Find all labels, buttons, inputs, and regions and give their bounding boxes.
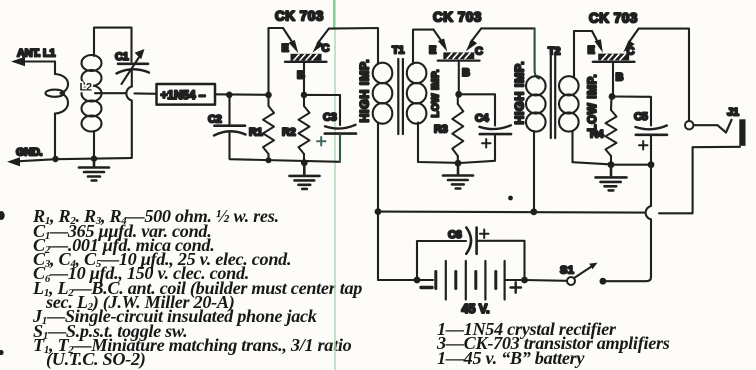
coil L2 (top lead) bbox=[94, 28, 132, 159]
svg-text:C6: C6 bbox=[448, 229, 462, 241]
node: switch fixed contact bbox=[600, 278, 607, 285]
wire base Q2 to C4 bbox=[459, 94, 495, 125]
resistor R1 bbox=[249, 95, 274, 160]
wire T1 primary bottom to B- rail bbox=[377, 123, 379, 212]
capacitor C3 bbox=[317, 95, 356, 162]
svg-text:LOW IMP.: LOW IMP. bbox=[587, 74, 599, 132]
T2 primary winding bbox=[526, 76, 546, 95]
svg-text:L2: L2 bbox=[80, 82, 92, 94]
wire antenna down to L1 bbox=[54, 62, 56, 75]
capacitor C6 bbox=[417, 228, 525, 281]
wire T1 secondary top to Q2 emitter bbox=[413, 30, 434, 64]
switch S1 bbox=[560, 263, 598, 285]
wire stage3 ground to C5 bottom bbox=[611, 164, 651, 166]
node: base Q2 junction bbox=[455, 91, 462, 98]
wire T2 primary bottom to B- rail bbox=[533, 131, 535, 212]
ground (tank) bbox=[79, 159, 109, 181]
svg-text:HIGH IMP.: HIGH IMP. bbox=[358, 59, 372, 123]
wire rectifier output bbox=[215, 93, 269, 96]
ground (stage 3) bbox=[596, 165, 627, 191]
svg-text:E: E bbox=[588, 45, 595, 57]
wire T1 secondary bottom to stage2 ground bbox=[418, 123, 456, 163]
node: L1/rail junction bbox=[52, 156, 58, 162]
node: R2 bottom ground junction bbox=[301, 159, 308, 166]
wire L2 tap to rectifier bbox=[95, 92, 157, 95]
svg-text:B: B bbox=[616, 72, 624, 84]
node: R1 bottom bbox=[266, 157, 272, 163]
svg-text:S1: S1 bbox=[560, 265, 574, 277]
svg-text:HIGH IMP.: HIGH IMP. bbox=[513, 61, 527, 125]
ground (stage 2) bbox=[443, 163, 473, 188]
antenna terminal ANT. L1 bbox=[11, 48, 55, 67]
node: battery - junction bbox=[414, 277, 421, 284]
svg-text:CK 703: CK 703 bbox=[433, 10, 482, 25]
svg-text:LOW IMP.: LOW IMP. bbox=[431, 69, 442, 117]
node: base Q3 junction bbox=[609, 93, 616, 100]
cell plates: short bbox=[436, 272, 496, 289]
T1 core bbox=[397, 59, 399, 134]
resistor R2 bbox=[282, 95, 310, 163]
node: L2 ground junction bbox=[91, 155, 97, 161]
capacitor C4 bbox=[460, 113, 511, 164]
svg-text:C1: C1 bbox=[115, 51, 129, 63]
transistor Q3 CK703 bbox=[588, 11, 639, 96]
scan speck left edge bbox=[0, 211, 5, 220]
scan speck left lower bbox=[0, 350, 4, 355]
node: C2 junction bbox=[226, 92, 233, 99]
svg-text:+1N54 –: +1N54 – bbox=[161, 88, 206, 102]
jack spring contact bbox=[694, 120, 732, 133]
wire emitter Q1 riser bbox=[269, 28, 284, 95]
transformer T2 bbox=[513, 46, 600, 139]
svg-text:C4: C4 bbox=[475, 113, 490, 125]
parts list text block left bbox=[33, 207, 279, 225]
svg-text:CK 703: CK 703 bbox=[589, 11, 638, 26]
wire B- rail bbox=[378, 212, 645, 213]
T2 secondary winding bbox=[559, 76, 579, 95]
parts list text block right bbox=[437, 320, 616, 338]
resistor R3 bbox=[434, 94, 463, 163]
svg-text:R1: R1 bbox=[249, 127, 263, 139]
wire jack sleeve return bbox=[659, 147, 740, 214]
T1 primary winding bbox=[373, 63, 393, 84]
node: stage3 ground junction bbox=[608, 161, 615, 168]
wire rail down to battery - bbox=[378, 212, 417, 280]
green scan line bbox=[334, 0, 336, 370]
wire Q2 collector to T2 primary (dark green tinted) bbox=[481, 27, 534, 29]
svg-text:45 V.: 45 V. bbox=[462, 302, 490, 316]
variable capacitor C1 bbox=[115, 28, 149, 87]
svg-text:E: E bbox=[429, 45, 436, 57]
wire Q1 collector to T1 primary bbox=[329, 28, 378, 64]
wire stage1 ground rail bbox=[230, 159, 341, 162]
wire battery+ to switch bbox=[525, 279, 568, 282]
transformer T1 bbox=[358, 45, 442, 135]
wire tank bottom rail bbox=[56, 158, 132, 159]
node: C5 bottom junction bbox=[648, 161, 655, 168]
svg-text:E: E bbox=[282, 43, 289, 55]
svg-text:C3: C3 bbox=[323, 112, 337, 124]
coil L1 bbox=[46, 74, 69, 159]
svg-text:R4: R4 bbox=[590, 129, 605, 141]
scan speck near T2 bottom bbox=[508, 196, 513, 201]
svg-text:R2: R2 bbox=[282, 127, 296, 139]
plus label bbox=[511, 282, 522, 292]
battery 45V bbox=[417, 261, 525, 316]
svg-text:C5: C5 bbox=[634, 111, 648, 123]
wire battery+ riser with hop over rail bbox=[603, 165, 651, 282]
phone jack J1 bbox=[659, 107, 746, 214]
svg-text:B: B bbox=[462, 67, 470, 79]
transistor Q1 CK703 bbox=[275, 9, 330, 95]
crystal rectifier 1N54 bbox=[157, 84, 216, 105]
svg-text:C2: C2 bbox=[208, 114, 222, 126]
svg-text:GND.: GND. bbox=[16, 147, 43, 159]
node: T1 bottom rail junction bbox=[375, 208, 382, 215]
wire base line to C3 bbox=[304, 94, 340, 96]
node: stage2 ground junction bbox=[455, 160, 462, 167]
jack sleeve bar bbox=[739, 119, 745, 146]
T2 core bbox=[550, 56, 552, 139]
capacitor C2 bbox=[208, 95, 246, 159]
node: base Q1 junction bbox=[301, 92, 308, 99]
resistor R4 bbox=[590, 97, 617, 165]
ground terminal GND. bbox=[7, 147, 56, 167]
transistor Q2 CK703 bbox=[429, 10, 483, 95]
node: R1 top / emitter junction bbox=[265, 92, 272, 99]
svg-text:J1: J1 bbox=[727, 107, 739, 119]
wire T2 secondary bottom to stage3 ground bbox=[573, 131, 610, 164]
wire base Q3 to C5 bbox=[612, 97, 651, 126]
T1 secondary winding bbox=[407, 63, 427, 84]
jack tip contact (open circle) bbox=[685, 121, 693, 129]
svg-text:T1: T1 bbox=[392, 45, 404, 57]
svg-text:R3: R3 bbox=[434, 124, 448, 136]
cell plates: long bbox=[446, 261, 505, 300]
svg-text:CK 703: CK 703 bbox=[275, 9, 324, 24]
svg-text:C: C bbox=[475, 46, 483, 58]
wire C1 hop over tap line bbox=[126, 87, 131, 159]
node: T2 bottom rail junction bbox=[530, 208, 537, 215]
minus label bbox=[421, 286, 432, 289]
ground (stage 1) bbox=[290, 163, 320, 189]
capacitor C5 bbox=[634, 111, 667, 165]
coil L2 windings bbox=[82, 55, 102, 132]
node: battery + junction bbox=[521, 277, 528, 284]
wire T2 secondary top to Q3 emitter bbox=[574, 31, 592, 77]
wire Q3 collector to jack bbox=[639, 29, 689, 121]
